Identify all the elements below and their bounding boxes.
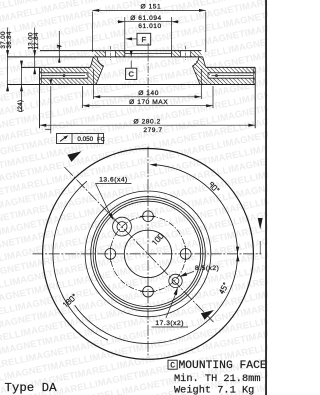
section right hat plate outboard of bolt hole (hatched) — [191, 51, 202, 57]
section left hat plate outboard of bolt hole (hatched) — [95, 51, 106, 57]
svg-text:Ø 170 MAX: Ø 170 MAX — [129, 99, 168, 106]
dim dia 151 extension lines — [91, 12, 93, 53]
runout frame leader — [50, 86, 52, 134]
dim 13.00/12.84 line — [34, 28, 36, 74]
dim dia 170 MAX line — [83, 105, 214, 107]
front view dia170 max circle — [85, 191, 211, 317]
section vent end left — [87, 73, 89, 78]
section right hat wall inner fillet — [193, 57, 201, 85]
svg-text:F: F — [142, 35, 147, 44]
section right hat wall outer edge — [203, 57, 206, 68]
section pad surface right — [206, 66, 256, 68]
datum F box — [137, 33, 151, 45]
section disc axis centerline — [147, 43, 149, 100]
bolt hole W — [105, 249, 116, 260]
svg-text:Min. TH 21.8mm: Min. TH 21.8mm — [174, 373, 261, 385]
front view center bore dia61 — [124, 230, 171, 277]
section bore edge left — [124, 51, 126, 57]
bolt hole S — [143, 286, 154, 297]
svg-text:Type DA: Type DA — [5, 381, 58, 395]
section left ring mid band between vent end and inner edge (hatched) — [86, 73, 92, 78]
svg-text:Ø 151: Ø 151 — [141, 3, 162, 10]
svg-text:279.7: 279.7 — [143, 127, 162, 134]
section left vent mid line with vane dot — [42, 75, 86, 77]
dim dia 170 extension lines — [82, 86, 84, 108]
section right ring bottom plate (hatched) — [205, 78, 256, 84]
svg-text:7: 7 — [57, 44, 64, 48]
counterbored hole NW (13.6 with chamfer) — [117, 222, 127, 232]
section right ring mid band (hatched) — [205, 73, 211, 78]
section left ring bottom plate (hatched) — [40, 78, 92, 84]
front view vertical centerline — [147, 147, 149, 358]
runout tolerance frame — [57, 134, 104, 144]
angular dimension arc for 180 deg, left side r=95 — [53, 181, 108, 340]
screw hole SE (8.5 / 17.3) — [172, 278, 179, 285]
section bore edge right — [170, 51, 172, 57]
bolt hole N — [143, 211, 154, 222]
svg-text:FC: FC — [97, 137, 105, 143]
label 100 bolt circle (rotated) — [152, 233, 163, 245]
section mounting face line (extended left for dim 7) — [40, 50, 201, 52]
svg-text:61.010: 61.010 — [138, 23, 161, 30]
label 180 deg (rotated) — [63, 294, 77, 307]
section left hat wall outer edge — [90, 57, 93, 68]
section bolt hole left edges — [104, 51, 106, 57]
svg-text:36.84: 36.84 — [6, 31, 13, 48]
dim dia 61.094/61.010 line — [118, 21, 179, 23]
dim (24) line — [21, 61, 23, 113]
drawing frame right border — [265, 0, 267, 395]
label 90 deg (rotated) — [209, 182, 220, 193]
angular arc arrows at E — [236, 247, 239, 254]
section ring bottom line full width (extended left for dims) — [7, 84, 255, 86]
svg-text:13.6(x4): 13.6(x4) — [99, 177, 128, 184]
mounting face note C box — [168, 360, 177, 369]
label 45 deg (rotated) — [219, 283, 228, 295]
section bore chamfer line — [125, 53, 172, 55]
section trace arrow SE — [201, 310, 214, 320]
svg-text:12.84: 12.84 — [33, 32, 40, 49]
svg-text:Ø 140: Ø 140 — [138, 90, 159, 97]
section disc right edge (also dia280 extension) — [254, 67, 256, 128]
dim dia 140 extension lines — [92, 69, 94, 99]
section left hat wall (hatched) — [90, 57, 103, 85]
front view horizontal centerline — [33, 253, 262, 255]
bolt hole E — [180, 249, 191, 260]
section right hat wall (hatched) — [193, 57, 206, 85]
svg-text:8.5(x2): 8.5(x2) — [195, 265, 219, 272]
front view hat step circle — [93, 199, 203, 309]
runout symbol arrow — [60, 137, 67, 142]
dim 7 line — [58, 31, 60, 63]
section bolt hole right edges — [180, 51, 182, 57]
dim dia 151 line — [92, 9, 205, 11]
section trace arrow NW (view direction) — [67, 151, 81, 162]
angular arc arrow at N — [149, 163, 157, 166]
label C leader — [130, 61, 132, 69]
front view bolt circle dia100 (dash-dot) — [110, 216, 185, 291]
section left ring top plate (hatched) — [40, 67, 92, 72]
section hat bottom line (extended left for dims) — [7, 56, 203, 58]
dim dia 280.2/279.7 line — [40, 124, 256, 126]
front view hat outer circle dia151 — [91, 197, 206, 312]
section left hat plate inboard of bolt hole (hatched) — [116, 51, 125, 57]
svg-text:0.050: 0.050 — [77, 136, 93, 143]
svg-text:Weight 7.1 Kg: Weight 7.1 Kg — [174, 384, 254, 395]
svg-text:Ø 61.094: Ø 61.094 — [130, 15, 162, 22]
front view hat circle dia140 — [95, 201, 200, 306]
svg-text:(24): (24) — [17, 100, 24, 112]
section disc left edge (also dia280 extension) — [39, 67, 41, 128]
svg-text:Ø 280.2: Ø 280.2 — [134, 119, 161, 126]
svg-text:C: C — [129, 70, 135, 79]
svg-text:C: C — [170, 362, 175, 371]
dim dia 140 line — [93, 96, 201, 98]
section right vent bottom line — [208, 77, 255, 79]
angular 45 extension arrow at E — [259, 241, 261, 254]
svg-text:17.3(x2): 17.3(x2) — [155, 320, 184, 327]
section bolt hole centerline right — [185, 46, 187, 60]
dim dia 61 extension lines — [124, 17, 126, 50]
section pad surface left — [21, 66, 90, 68]
section right vent mid line with vane dot — [212, 75, 254, 77]
section left vent top line — [40, 72, 89, 74]
angular dimension arc r=89.5 — [75, 165, 238, 344]
section right vent top line — [208, 72, 255, 74]
section left hat wall inner fillet — [96, 57, 104, 85]
label C box (mounting face) — [126, 68, 137, 79]
front view outer circle — [43, 149, 254, 360]
section bolt hole centerline left — [109, 46, 111, 60]
section left vent bottom line — [40, 77, 89, 79]
datum F leader — [131, 38, 137, 40]
section right ring top plate (hatched) — [205, 67, 256, 72]
section vent end right — [207, 73, 209, 78]
dim 37.00/36.84 line — [7, 28, 9, 92]
section right hat plate inboard of bolt hole (hatched) — [171, 51, 180, 57]
svg-text:MOUNTING FACE: MOUNTING FACE — [179, 360, 267, 372]
section trace line NW-SE — [65, 167, 214, 322]
